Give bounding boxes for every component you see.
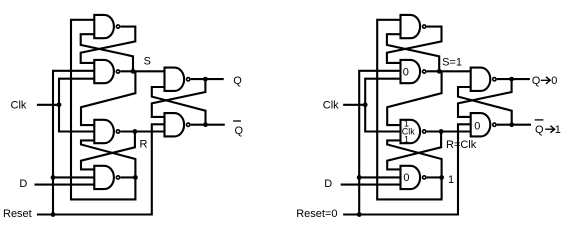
node Clk junction (right circuit) xyxy=(363,102,368,107)
wire Q-bar output (right circuit) xyxy=(497,124,531,126)
NAND gate G3 (left circuit) xyxy=(94,120,114,143)
NAND gate G1 (left circuit) xyxy=(94,15,114,38)
svg-text:0: 0 xyxy=(403,66,409,78)
svg-text:Reset=0: Reset=0 xyxy=(296,208,337,220)
wire Reset branch to gate4 (left circuit) xyxy=(53,176,94,178)
svg-text:0: 0 xyxy=(403,172,409,184)
svg-text:Q: Q xyxy=(532,75,541,87)
svg-text:S=1: S=1 xyxy=(442,56,462,68)
wire Clk input (left circuit) xyxy=(37,104,59,106)
svg-text:Q: Q xyxy=(233,75,242,87)
wire Reset branch to gate2 (right circuit) xyxy=(359,71,400,215)
wire Clk input (right circuit) xyxy=(343,104,365,106)
node S (left circuit) xyxy=(131,69,136,74)
NAND gate G3 (right circuit) xyxy=(401,120,421,143)
node Q (left circuit) xyxy=(203,77,208,82)
wire Q-bar feedback to gate5 input (left circuit) xyxy=(152,87,206,125)
wire Q output (right circuit) xyxy=(497,78,530,80)
wire feedback gate4 output to gate1 input (left circuit) xyxy=(71,20,135,200)
node Q-bar (right circuit) xyxy=(509,122,514,127)
NAND gate G2 (right circuit) xyxy=(401,60,421,83)
wire Reset input to gate6 (right circuit) xyxy=(343,124,471,214)
svg-text:Clk: Clk xyxy=(323,100,339,112)
wire R gate3 output (right circuit) xyxy=(427,130,471,132)
wire R to gate4 input (left circuit) xyxy=(81,132,135,170)
wire Reset branch to gate4 (right circuit) xyxy=(359,176,400,178)
NAND gate G6 (right circuit) xyxy=(471,113,491,136)
svg-text:0: 0 xyxy=(474,121,480,133)
svg-text:R: R xyxy=(140,139,148,151)
svg-text:Q: Q xyxy=(535,124,544,136)
wire gate1 output to gate2 input (right circuit) xyxy=(387,27,442,63)
node Reset junction at gate4 branch (left circuit) xyxy=(51,175,56,180)
wire S gate2 output (right circuit) xyxy=(427,70,471,72)
svg-text:0: 0 xyxy=(551,75,557,87)
wire gate4 output (right circuit) xyxy=(427,176,442,178)
NAND gate G5 (left circuit) xyxy=(165,68,185,91)
wire Reset input to gate6 (left circuit) xyxy=(37,124,165,214)
node S (right circuit) xyxy=(437,69,442,74)
node gate4 output (right circuit) xyxy=(439,175,444,180)
node Q (right circuit) xyxy=(509,77,514,82)
NAND gate G1 (right circuit) xyxy=(401,15,421,38)
wire gate1 output to gate2 input (left circuit) xyxy=(81,27,136,63)
svg-text:D: D xyxy=(19,178,27,190)
wire feedback gate4 output to gate1 input (right circuit) xyxy=(377,20,441,200)
svg-text:Q: Q xyxy=(235,125,244,137)
svg-text:R=Clk: R=Clk xyxy=(446,139,477,151)
wire Reset branch to gate2 (left circuit) xyxy=(53,71,94,215)
svg-text:Reset: Reset xyxy=(3,208,32,220)
wire S feedback to gate1 input (left circuit) xyxy=(81,34,133,71)
node Reset junction on bus (right circuit) xyxy=(357,212,362,217)
node R (right circuit) xyxy=(439,129,444,134)
wire S to gate3 input (left circuit) xyxy=(81,71,135,125)
svg-text:1: 1 xyxy=(404,135,409,145)
node Reset junction on bus (left circuit) xyxy=(51,212,56,217)
NAND gate G4 (left circuit) xyxy=(94,166,114,189)
wire Q-bar output (left circuit) xyxy=(191,124,225,126)
svg-text:1: 1 xyxy=(448,174,454,186)
wire R to gate4 input (right circuit) xyxy=(387,132,441,170)
node R (left circuit) xyxy=(133,129,138,134)
NAND gate G6 (left circuit) xyxy=(165,113,185,136)
wire S gate2 output (left circuit) xyxy=(120,70,164,72)
node gate4 output (left circuit) xyxy=(133,175,138,180)
wire D input (left circuit) xyxy=(35,184,95,186)
node Q-bar (left circuit) xyxy=(203,122,208,127)
wire R gate3 output (left circuit) xyxy=(120,130,164,132)
wire Q feedback to gate6 input (left circuit) xyxy=(152,79,206,117)
wire S to gate3 input (right circuit) xyxy=(387,71,441,125)
NAND gate G5 (right circuit) xyxy=(471,68,491,91)
NAND gate G4 (right circuit) xyxy=(401,166,421,189)
wire Q output (left circuit) xyxy=(191,78,224,80)
node Clk junction (left circuit) xyxy=(57,102,62,107)
svg-text:D: D xyxy=(324,178,332,190)
svg-text:Clk: Clk xyxy=(11,100,27,112)
wire Clk branch to gate2/gate3 (left circuit) xyxy=(59,79,94,132)
NAND gate G2 (left circuit) xyxy=(94,60,114,83)
wire S feedback to gate1 input (right circuit) xyxy=(387,34,439,71)
wire gate4 output to gate3 input (right circuit) xyxy=(387,140,441,177)
wire Clk branch to gate2/gate3 (right circuit) xyxy=(365,79,400,132)
svg-text:1: 1 xyxy=(555,124,561,136)
wire gate4 output to gate3 input (left circuit) xyxy=(81,140,135,177)
wire D input (right circuit) xyxy=(341,184,401,186)
node Reset junction at gate4 branch (right circuit) xyxy=(357,175,362,180)
wire Q-bar feedback to gate5 input (right circuit) xyxy=(458,87,512,125)
svg-text:S: S xyxy=(144,56,151,68)
wire Q feedback to gate6 input (right circuit) xyxy=(458,79,512,117)
wire gate4 output (left circuit) xyxy=(120,176,135,178)
